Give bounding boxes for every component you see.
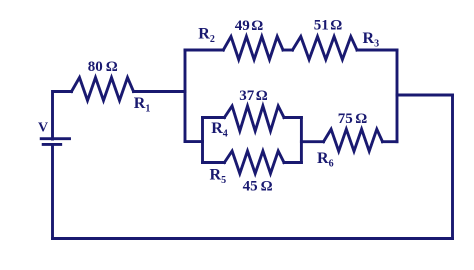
wire: top branch right lead from R3 [357,49,397,52]
wire: R4 branch left lead [203,116,225,119]
svg-text:R5: R5 [210,167,227,187]
wire: right rail vertical [451,95,454,239]
wire: link between R2 and R3 [283,49,293,52]
svg-text:49Ω: 49Ω [235,18,264,34]
svg-text:45Ω: 45Ω [243,179,273,195]
svg-text:75Ω: 75Ω [338,111,368,127]
wire: middle rail vertical [396,50,399,142]
resistor R6 zigzag (75 ohm) [324,129,383,151]
wire: R1 to node A [134,90,186,93]
svg-text:R3: R3 [363,30,380,50]
resistor R2 zigzag (49 ohm) [223,37,283,60]
wire: left bus of R4/R5 pair [201,118,204,163]
resistor R5 zigzag (45 ohm) [224,151,284,174]
wire: R6 to middle rail [383,140,398,143]
svg-text:80Ω: 80Ω [88,59,118,75]
resistor R1 zigzag (80 ohm) [72,78,134,101]
wire: node A stub to parallel pair [185,140,203,143]
wire: node A bus (left vertical of parallel network) [184,50,187,142]
battery V short negative plate [43,143,61,146]
wire: battery negative down to bottom rail [51,144,54,238]
svg-text:R4: R4 [211,120,228,140]
wire: battery positive up and across to R1 [53,92,72,140]
wire: R4 branch right lead [284,116,301,119]
svg-text:V: V [38,121,48,136]
svg-text:R6: R6 [317,150,334,170]
svg-text:R1: R1 [134,95,151,115]
resistor R4 zigzag (37 ohm) [224,106,284,131]
wire: R5 branch left lead [203,161,225,164]
wire: R5 branch right lead [284,161,301,164]
wire: parallel pair to R6 [301,140,323,143]
wire: right bus of R4/R5 pair [300,118,303,163]
svg-text:37Ω: 37Ω [239,88,268,104]
svg-text:R2: R2 [198,25,215,45]
svg-text:51Ω: 51Ω [314,18,343,34]
wire: jumper mid-rail to right rail [397,94,453,97]
wire: top branch left lead to R2 [185,49,223,52]
wire: bottom return rail [53,237,453,240]
battery V long positive plate [41,137,69,140]
resistor R3 zigzag (51 ohm) [293,37,358,60]
